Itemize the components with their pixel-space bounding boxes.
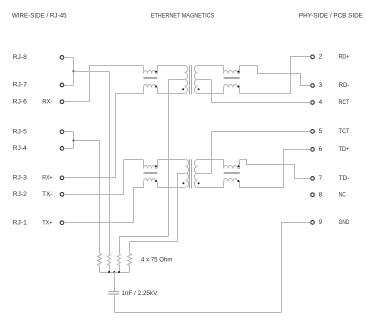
svg-text:RJ-2: RJ-2 [13, 191, 28, 198]
svg-text:RJ-5: RJ-5 [13, 128, 28, 135]
svg-text:RX-: RX- [42, 98, 52, 105]
svg-text:TX-: TX- [42, 191, 52, 198]
svg-text:GND: GND [339, 219, 350, 226]
svg-text:RCT: RCT [339, 99, 350, 106]
svg-text:3: 3 [319, 82, 323, 89]
svg-text:TD-: TD- [339, 175, 350, 182]
svg-text:PHY-SIDE / PCB SIDE: PHY-SIDE / PCB SIDE [299, 13, 363, 20]
svg-text:2: 2 [319, 54, 323, 61]
svg-text:TX+: TX+ [42, 219, 53, 226]
svg-text:RJ-6: RJ-6 [13, 98, 28, 105]
svg-text:RX+: RX+ [42, 175, 53, 182]
svg-text:RJ-1: RJ-1 [13, 219, 28, 226]
svg-text:RJ-4: RJ-4 [13, 145, 28, 152]
svg-text:ETHERNET MAGNETICS: ETHERNET MAGNETICS [151, 13, 215, 20]
svg-text:5: 5 [319, 128, 323, 135]
svg-text:RJ-3: RJ-3 [13, 175, 28, 182]
svg-text:RJ-8: RJ-8 [13, 54, 28, 61]
svg-text:RD-: RD- [339, 82, 350, 89]
svg-text:8: 8 [319, 191, 323, 198]
svg-text:NC: NC [339, 191, 347, 198]
svg-text:RD+: RD+ [339, 54, 350, 61]
svg-text:TD+: TD+ [339, 146, 350, 153]
svg-text:TCT: TCT [339, 128, 350, 135]
svg-text:4 x 75 Ohm: 4 x 75 Ohm [141, 257, 172, 264]
svg-text:WIRE-SIDE / RJ-45: WIRE-SIDE / RJ-45 [12, 13, 67, 20]
svg-text:7: 7 [319, 175, 323, 182]
svg-text:6: 6 [319, 146, 323, 153]
svg-text:1nF / 2.25kV: 1nF / 2.25kV [121, 290, 158, 297]
svg-text:RJ-7: RJ-7 [13, 82, 28, 89]
svg-text:4: 4 [319, 99, 323, 106]
svg-text:9: 9 [319, 219, 323, 226]
